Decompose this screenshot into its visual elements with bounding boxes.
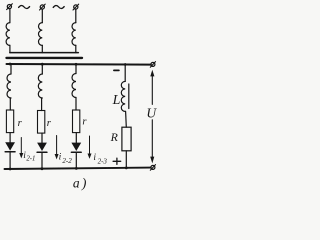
node A3 (junction dot) xyxy=(75,63,78,66)
output terminal T4 (top right) xyxy=(150,62,155,68)
terminal T1 xyxy=(7,4,13,10)
output terminal T5 (bottom right) xyxy=(150,165,155,171)
bottom bus wire xyxy=(5,168,151,169)
diode D1 xyxy=(5,142,15,152)
wire winding W2 bottom xyxy=(41,45,43,52)
AC source tilde 2 xyxy=(53,5,64,8)
svg-text:L: L xyxy=(112,93,121,108)
wire D1 to bottom bus xyxy=(9,152,11,169)
wire D3 to bottom bus xyxy=(75,152,77,168)
current arrow i2-2 xyxy=(55,136,59,160)
primary winding W1 xyxy=(6,23,10,46)
transformer core xyxy=(7,57,83,59)
wire from T2 to primary winding 2 xyxy=(41,9,43,22)
wire L to resistor R xyxy=(125,111,128,127)
current arrow i2-3 xyxy=(88,136,92,159)
svg-text:а): а) xyxy=(73,175,89,190)
voltage arrow U (lower head) xyxy=(150,120,154,164)
resistor R xyxy=(122,127,131,151)
node B4 (junction dot) xyxy=(125,167,128,170)
node B1 (junction dot) xyxy=(9,168,12,171)
primary common bus wire xyxy=(10,52,78,54)
secondary winding S2 xyxy=(38,74,42,98)
wire from T1 to primary winding 1 xyxy=(9,9,11,23)
svg-text:R: R xyxy=(110,130,119,144)
terminal T3 xyxy=(73,4,79,10)
node B2 (junction dot) xyxy=(41,167,44,170)
secondary bus wire xyxy=(7,63,151,66)
svg-text:i: i xyxy=(93,153,96,163)
wire bus to secondary winding S2 xyxy=(41,64,43,74)
inductor L xyxy=(121,81,125,111)
wire r3 to diode D3 xyxy=(75,133,77,143)
svg-text:U: U xyxy=(146,105,157,120)
wire bus to secondary winding S3 xyxy=(75,64,77,73)
label plus xyxy=(113,158,121,164)
wire r1 to diode D1 xyxy=(9,133,11,143)
node A4 (junction dot, L-R branch) xyxy=(124,63,127,66)
svg-text:2-3: 2-3 xyxy=(98,157,108,165)
resistor r3 xyxy=(73,110,80,133)
label i2-3 xyxy=(93,153,107,165)
node B3 (junction dot) xyxy=(75,167,78,170)
wire winding W1 bottom xyxy=(9,45,11,52)
resistor r1 xyxy=(6,110,13,133)
wire S3 to resistor r3 xyxy=(75,98,77,111)
voltage arrow U (upper head) xyxy=(150,70,154,105)
primary winding W3 xyxy=(72,23,76,46)
diode D2 xyxy=(37,143,47,153)
wire bus to secondary winding S1 xyxy=(10,64,12,74)
secondary winding S3 xyxy=(72,74,76,98)
node A1 (junction dot) xyxy=(9,63,12,66)
svg-text:2-2: 2-2 xyxy=(62,157,72,165)
secondary winding S1 xyxy=(7,74,11,98)
paper background xyxy=(0,0,163,193)
label i2-2 xyxy=(59,153,73,165)
terminal T2 xyxy=(40,4,46,10)
primary winding W2 xyxy=(39,23,43,46)
inductor L core bar xyxy=(128,84,130,109)
label i2-1 xyxy=(23,151,35,163)
wire R to bottom bus xyxy=(125,151,127,168)
wire from T3 to primary winding 3 xyxy=(75,9,77,22)
wire S1 to resistor r1 xyxy=(9,98,11,110)
wire r2 to diode D2 xyxy=(41,133,43,143)
wire D2 to bottom bus xyxy=(41,152,43,169)
wire bus to inductor L xyxy=(124,65,126,82)
wire S2 to resistor r2 xyxy=(41,98,43,111)
node A2 (junction dot) xyxy=(41,63,44,66)
AC source tilde 1 xyxy=(19,5,30,8)
diode D3 xyxy=(71,143,81,153)
svg-text:i: i xyxy=(59,153,62,163)
label minus xyxy=(114,69,119,71)
wire winding W3 bottom xyxy=(75,45,77,52)
svg-text:2-1: 2-1 xyxy=(26,155,35,162)
current arrow i2-1 xyxy=(19,138,23,159)
resistor r2 xyxy=(38,111,45,134)
